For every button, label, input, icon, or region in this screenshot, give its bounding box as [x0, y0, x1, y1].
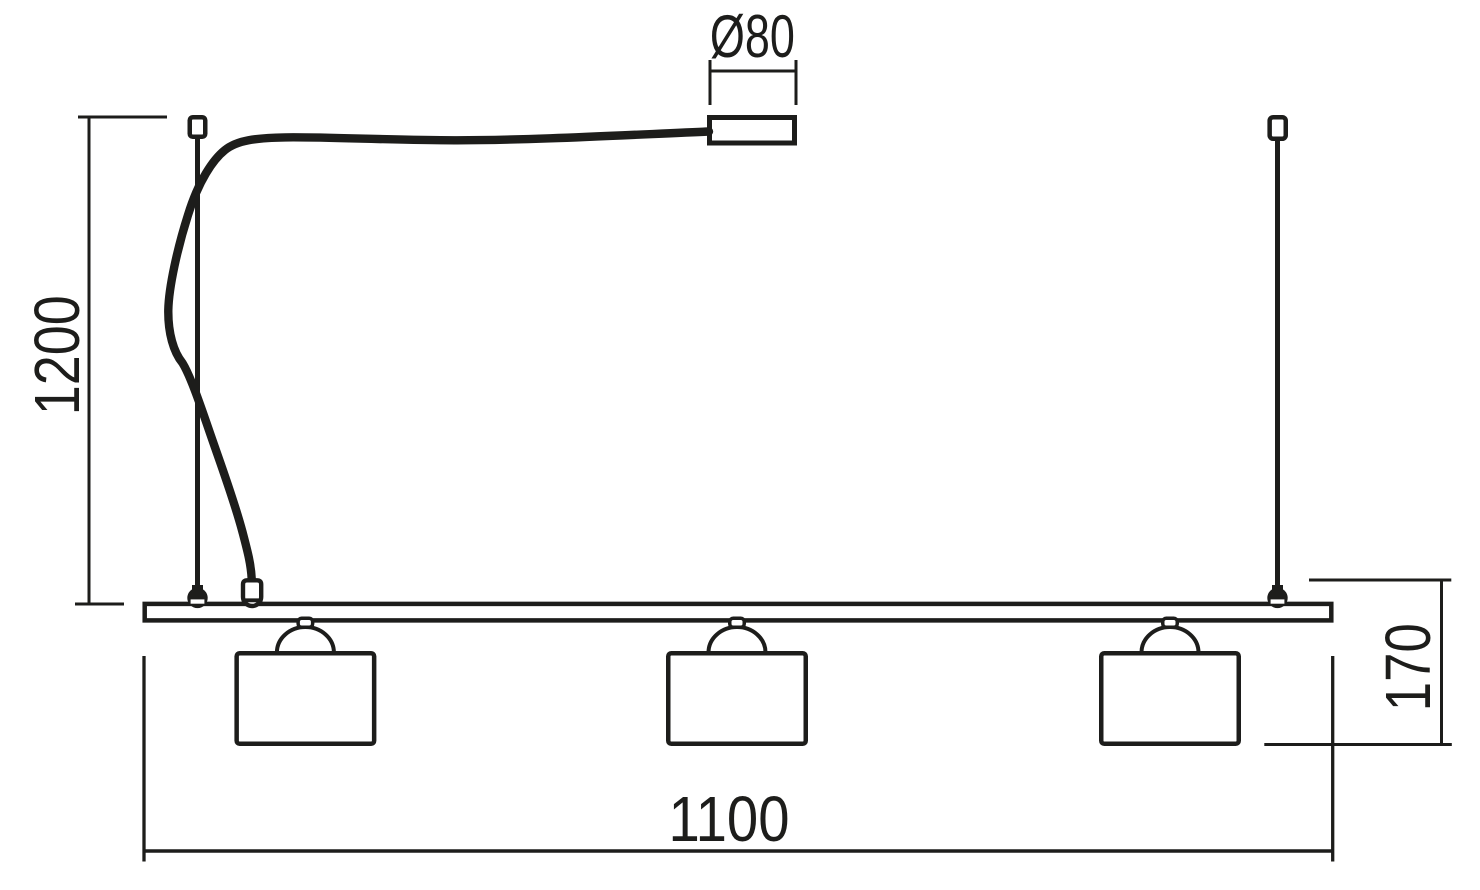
right lamp dome [1142, 627, 1199, 653]
right suspension rod [1275, 141, 1280, 590]
left lamp dome [277, 627, 334, 653]
svg-text:Ø80: Ø80 [710, 3, 795, 70]
right ball joint window [1271, 599, 1285, 603]
cable strain relief body [243, 580, 261, 606]
svg-text:170: 170 [1372, 623, 1444, 711]
dimension 1200 vertical line [88, 117, 91, 604]
cable strain relief chord [244, 598, 261, 602]
dim 170 bottom extension [1264, 743, 1452, 746]
dimension 1200 bottom tick [75, 603, 124, 606]
left ball joint [187, 588, 207, 608]
dim 80 dimension line [710, 70, 796, 73]
right lamp nub [1163, 618, 1178, 627]
left ball joint window [191, 599, 205, 603]
label 1200 [21, 295, 93, 415]
dim 1100 right extension [1331, 656, 1334, 862]
middle lamp dome [709, 627, 766, 653]
ceiling canopy [710, 118, 795, 144]
middle lamp shade [668, 653, 806, 744]
dim 1100 left extension [142, 656, 145, 862]
svg-text:1100: 1100 [669, 783, 790, 855]
support bar [145, 604, 1332, 621]
right ball joint collar [1272, 585, 1283, 591]
dim 1100 dimension line [143, 849, 1334, 853]
label 170 [1372, 623, 1444, 711]
power cable [168, 132, 709, 580]
left ball joint collar [192, 585, 203, 591]
dim 170 vertical line [1440, 580, 1443, 745]
left rod ceiling cap [190, 117, 206, 137]
dimension 1200 top tick [78, 116, 167, 119]
dim 170 top extension [1309, 579, 1451, 582]
right rod ceiling cap [1270, 117, 1286, 139]
left suspension rod [195, 139, 200, 590]
right lamp shade [1101, 653, 1239, 744]
dim 80 right extension [795, 60, 798, 105]
svg-text:1200: 1200 [21, 295, 93, 415]
left lamp nub [298, 618, 313, 627]
dim 80 left extension [709, 60, 712, 105]
middle lamp nub [730, 618, 745, 627]
left lamp shade [237, 653, 375, 744]
right ball joint [1267, 588, 1287, 608]
